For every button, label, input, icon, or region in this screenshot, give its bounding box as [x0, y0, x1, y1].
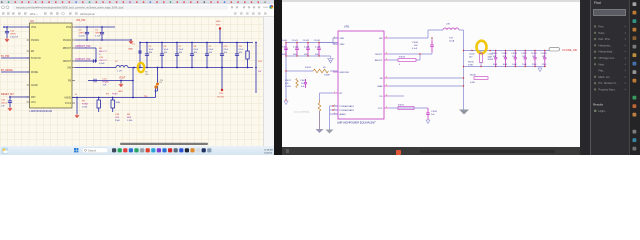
svg-text:C9: C9 [209, 46, 213, 48]
editor right strip [263, 17, 275, 146]
svg-text:Pins: Pins [599, 25, 605, 29]
svg-text:RESET_MV: RESET_MV [1, 93, 14, 96]
svg-text:5/4/2023: 5/4/2023 [264, 152, 273, 154]
capacitor C14 [88, 79, 109, 87]
svg-text:C15: C15 [1, 100, 6, 102]
svg-text:C1029: C1029 [511, 53, 518, 55]
svg-text:C7: C7 [179, 46, 183, 48]
right toolbar strip background [629, 0, 640, 155]
net 5V_PW [1, 55, 30, 58]
svg-text:22uF: 22uF [239, 49, 244, 51]
wire RT [320, 93, 334, 100]
wire VOUT bottom rail [128, 67, 253, 69]
svg-text:C4: C4 [95, 30, 99, 32]
svg-text:Highl...: Highl... [599, 109, 607, 113]
left browser window background [0, 0, 274, 147]
svg-text:0.022uF: 0.022uF [10, 37, 19, 39]
svg-text:C10: C10 [224, 46, 229, 48]
svg-text:100k: 100k [116, 102, 122, 104]
wire VOUT sense [93, 68, 134, 98]
svg-text:VCORE_NB: VCORE_NB [562, 48, 577, 52]
capacitor C8 [190, 42, 199, 69]
svg-text:EN: EN [31, 51, 35, 53]
wire VCC [389, 107, 428, 109]
svg-text:C11: C11 [239, 46, 244, 48]
svg-text:50V: 50V [304, 54, 308, 56]
svg-text:24.9k: 24.9k [82, 107, 88, 109]
svg-text:easyeda.com/editor#id=schemati: easyeda.com/editor#id=schematic|power|lm… [16, 7, 124, 10]
capacitor C1042 [303, 40, 310, 57]
svg-text:PW: PW [258, 71, 261, 73]
editor toolbar icons [2, 12, 267, 16]
resistor R1017b zigzag [296, 79, 298, 88]
svg-text:Parts: Parts [599, 31, 606, 35]
svg-text:C13: C13 [99, 57, 104, 59]
svg-text:POWER PAD2: POWER PAD2 [340, 109, 355, 112]
svg-text:U7B: U7B [344, 26, 349, 29]
wire CBOOT [389, 52, 432, 54]
resistor R1016 [468, 51, 482, 67]
svg-text:RBOOT: RBOOT [99, 51, 107, 53]
orcad dark edge [580, 0, 590, 155]
svg-text:GND: GND [118, 91, 123, 93]
ground output caps [538, 67, 542, 72]
svg-text:R1074: R1074 [399, 57, 406, 59]
capacitor C1033 [501, 50, 508, 67]
svg-text:10uF: 10uF [503, 64, 508, 66]
svg-text:Wire: Wire [30, 12, 36, 16]
label U3 [30, 19, 34, 23]
wire L39 out [459, 30, 464, 110]
svg-text:1uF: 1uF [301, 86, 305, 88]
svg-text:VCC2: VCC2 [65, 103, 72, 105]
svg-text:EN/SYNC: EN/SYNC [340, 72, 350, 74]
wire PG [389, 95, 404, 97]
power arrow input [327, 56, 334, 63]
svg-text:VIN2: VIN2 [340, 44, 346, 46]
svg-text:10:48 AM: 10:48 AM [264, 148, 273, 151]
svg-text:7uH: 7uH [449, 38, 453, 40]
svg-text:RBOOT: RBOOT [63, 48, 72, 50]
address bar field [2, 5, 229, 9]
label U7B [344, 26, 349, 29]
svg-text:4: 4 [625, 38, 627, 41]
svg-text:1/16W: 1/16W [324, 75, 330, 77]
wire out bottom rail [463, 66, 546, 67]
wire EN [285, 70, 338, 71]
svg-text:VCC: VCC [378, 108, 383, 110]
test point TH1 [216, 21, 221, 43]
find panel title [594, 1, 601, 5]
svg-text:CBOOT: CBOOT [63, 61, 72, 63]
svg-text:16V: 16V [209, 52, 213, 54]
svg-text:L39: L39 [446, 24, 450, 26]
svg-text:R1072: R1072 [398, 105, 405, 107]
svg-text:TP6: TP6 [159, 82, 164, 84]
capacitor C1036 [412, 37, 434, 52]
svg-text:CBOOT: CBOOT [375, 54, 383, 56]
svg-text:1uF: 1uF [103, 85, 107, 87]
capacitor C1045 [314, 40, 321, 57]
svg-text:4.7uF: 4.7uF [95, 36, 101, 38]
capacitor C13 [93, 48, 107, 65]
svg-text:4: 4 [625, 51, 627, 54]
svg-text:16V: 16V [239, 52, 243, 54]
ground below C12 [5, 38, 9, 42]
capacitor C5 [145, 42, 154, 69]
svg-text:4: 4 [625, 82, 627, 85]
IC pin names left [27, 27, 42, 104]
svg-text:47K: 47K [285, 83, 289, 85]
svg-text:GND: GND [216, 21, 221, 23]
svg-text:4: 4 [625, 70, 627, 73]
svg-text:CHP2: CHP2 [79, 33, 86, 35]
svg-text:22uF: 22uF [209, 49, 214, 51]
svg-text:VIN2: VIN2 [66, 27, 72, 29]
canvas h scrollbar [120, 143, 208, 145]
inductor L2 [115, 61, 128, 73]
IC pin names right [63, 27, 75, 105]
svg-text:RBOOT: RBOOT [375, 60, 383, 62]
svg-text:VOUT5: VOUT5 [217, 96, 225, 98]
svg-text:LMR HIGHPOWER EQUIVALENT: LMR HIGHPOWER EQUIVALENT [337, 121, 376, 125]
svg-text:4.99K: 4.99K [468, 64, 474, 66]
label C18 [115, 114, 121, 122]
orcad bottom scrollbar strip [282, 147, 580, 155]
wire input top rail [286, 42, 338, 44]
svg-text:22pF: 22pF [115, 120, 121, 122]
resistor R1017b labels [285, 80, 292, 88]
svg-text:100: 100 [145, 74, 149, 76]
start button [74, 148, 78, 152]
svg-text:C1007: C1007 [300, 80, 307, 82]
svg-text:RST: RST [31, 97, 36, 99]
label LMR equivalent [337, 121, 376, 125]
test point TP6 [144, 82, 164, 98]
svg-text:VIN1: VIN1 [31, 27, 37, 29]
ground AGND branch [75, 94, 79, 118]
wire VOUT top rail [140, 42, 253, 44]
svg-text:R5: R5 [82, 101, 86, 103]
svg-text:22uF: 22uF [179, 49, 184, 51]
svg-text:C1033: C1033 [501, 53, 508, 55]
toolbar divider [0, 15, 274, 18]
tab favicons [1, 1, 266, 3]
svg-text:100%: 100% [263, 7, 268, 9]
search pill [82, 148, 108, 153]
capacitor C3 [79, 27, 90, 40]
svg-text:C12: C12 [10, 31, 15, 33]
wire input left rail [284, 43, 288, 105]
wire pgnd rail [75, 39, 132, 41]
svg-text:AGND: AGND [64, 96, 71, 99]
svg-text:R1017: R1017 [285, 80, 292, 82]
svg-text:1 uH: 1 uH [117, 71, 122, 73]
svg-text:PG: PG [379, 96, 382, 98]
capacitor C4 [95, 27, 104, 40]
svg-text:R2: R2 [99, 48, 103, 50]
svg-text:8: 8 [386, 94, 387, 96]
svg-text:R1016: R1016 [468, 62, 474, 64]
results section [593, 103, 607, 114]
svg-text:UCBOOT_PW: UCBOOT_PW [75, 58, 91, 61]
svg-text:VCC: VCC [31, 102, 36, 104]
svg-text:22uF: 22uF [542, 64, 547, 66]
status bar mark [286, 149, 289, 153]
resistor R1017 [318, 100, 321, 129]
scrollbar darker band [420, 150, 555, 153]
address bar right icons [231, 5, 273, 9]
svg-text:RFF: RFF [127, 117, 132, 119]
svg-text:nd: nd [132, 44, 135, 46]
svg-text:CHP1: CHP1 [10, 34, 17, 36]
svg-text:50V: 50V [315, 54, 319, 56]
svg-text:4: 4 [625, 63, 627, 66]
svg-text:C1036: C1036 [412, 42, 419, 44]
svg-text:RT: RT [340, 93, 344, 95]
svg-text:R1013: R1013 [305, 67, 312, 69]
capacitor C1040 [281, 40, 288, 57]
svg-text:C1025: C1025 [469, 54, 475, 56]
wire input bottom rail [286, 55, 331, 57]
svg-text:0.1uF: 0.1uF [304, 47, 310, 49]
taskbar clock [264, 148, 273, 154]
ground VIN caps [128, 40, 133, 51]
orcad top edge [282, 0, 580, 2]
svg-text:Hierarchic...: Hierarchic... [599, 43, 613, 47]
svg-text:CFF: CFF [115, 117, 120, 119]
svg-text:8: 8 [386, 106, 387, 108]
net BT_MODE [1, 69, 30, 72]
svg-text:LMR33630ADDAR: LMR33630ADDAR [30, 109, 53, 113]
svg-text:C1035: C1035 [431, 111, 438, 113]
wire out top rail [463, 50, 549, 51]
black window divider [274, 0, 282, 155]
resistor R5 [82, 98, 100, 113]
svg-text:2: 2 [334, 91, 335, 93]
svg-text:POWER PAD1: POWER PAD1 [340, 105, 355, 108]
svg-text:8: 8 [386, 52, 387, 54]
svg-text:50V: 50V [469, 56, 473, 58]
resistor R1074 [398, 57, 416, 66]
svg-text:TP8: TP8 [219, 93, 224, 95]
IC U3 body [30, 23, 73, 108]
svg-text:Nets: Nets [599, 62, 605, 66]
taskbar [0, 146, 274, 155]
wire SW [75, 67, 116, 69]
weather icon [2, 148, 9, 155]
ground VOUT sense [118, 80, 123, 93]
svg-text:8: 8 [386, 58, 387, 60]
label R8 [127, 114, 133, 122]
svg-text:Flat...: Flat... [599, 69, 606, 73]
svg-text:VIN1: VIN1 [340, 38, 346, 40]
svg-text:Search: Search [88, 148, 97, 152]
svg-text:5V/SYNC: 5V/SYNC [31, 58, 41, 60]
svg-text:Pin: Number N...: Pin: Number N... [599, 81, 618, 85]
test point TP6 [155, 67, 165, 91]
orange playhead marker [396, 150, 401, 155]
svg-text:4: 4 [625, 57, 627, 60]
svg-text:1uF: 1uF [1, 106, 5, 108]
svg-text:16V: 16V [179, 52, 183, 54]
svg-text:16V: 16V [149, 52, 153, 54]
find panel background [590, 0, 630, 155]
svg-text:C18: C18 [115, 114, 120, 116]
svg-text:Find: Find [594, 1, 601, 5]
svg-text:10uF: 10uF [512, 64, 517, 66]
svg-text:4: 4 [625, 44, 627, 47]
net VIN_PW [76, 19, 86, 22]
svg-text:C3: C3 [79, 30, 83, 32]
resistor R1018 on FB [470, 75, 488, 85]
svg-text:45: 45 [75, 94, 77, 96]
svg-text:Mark: xxx: Mark: xxx [599, 75, 611, 79]
off-page port [549, 48, 560, 51]
wire VIN right rail [75, 26, 115, 28]
svg-text:C1045: C1045 [314, 40, 321, 42]
svg-text:22uF: 22uF [532, 64, 537, 66]
svg-text:CHP3: CHP3 [95, 33, 102, 35]
find tree rows [594, 25, 627, 92]
svg-text:10uF: 10uF [149, 49, 154, 51]
capacitor C1035 [426, 108, 438, 120]
svg-text:R7: R7 [106, 94, 110, 96]
svg-text:C6: C6 [164, 46, 168, 48]
svg-text:Off Page Con...: Off Page Con... [599, 56, 617, 60]
svg-text:1/16W: 1/16W [285, 86, 291, 88]
capacitor C15 [1, 97, 12, 108]
capacitor C1028 [541, 50, 548, 67]
svg-text:RTBB: RTBB [82, 104, 88, 106]
svg-text:C1027: C1027 [521, 53, 528, 55]
svg-text:Property Nam...: Property Nam... [599, 88, 617, 92]
svg-text:50V: 50V [293, 54, 297, 56]
svg-text:C1028: C1028 [541, 53, 548, 55]
svg-text:0.1uF: 0.1uF [315, 47, 321, 49]
svg-text:10uF: 10uF [522, 64, 527, 66]
taskbar app icons [112, 148, 211, 152]
svg-text:16V: 16V [194, 52, 198, 54]
svg-text:BT_MODE: BT_MODE [1, 69, 13, 72]
find search box [593, 9, 626, 17]
svg-text:TH1: TH1 [216, 24, 221, 26]
resistor R1072 [398, 105, 414, 110]
wire FB [389, 77, 464, 78]
vertical vout branch [139, 42, 141, 68]
capacitor C1029 [511, 50, 518, 67]
svg-text:Results: Results [593, 103, 604, 107]
svg-text:1/16W: 1/16W [488, 59, 494, 61]
net VOUT [119, 78, 126, 80]
wire FB lower [72, 97, 156, 99]
svg-text:10uF: 10uF [164, 49, 169, 51]
svg-text:R1018: R1018 [470, 75, 476, 77]
svg-text:CHC1: CHC1 [1, 103, 8, 105]
test point TP8 [217, 67, 225, 99]
ground C1035 [426, 120, 430, 124]
capacitor C10 [220, 42, 229, 69]
svg-text:11.5A: 11.5A [449, 40, 455, 43]
capacitor C11 [235, 42, 244, 69]
schematic canvas grid [0, 17, 263, 146]
svg-text:Hierarchical...: Hierarchical... [599, 50, 615, 54]
svg-text:PGND2: PGND2 [63, 40, 72, 42]
svg-text:C1032: C1032 [531, 53, 538, 55]
svg-text:(Cam C1/2/Tabs): (Cam C1/2/Tabs) [294, 111, 309, 113]
svg-text:1.00k: 1.00k [127, 120, 133, 122]
svg-text:U3: U3 [30, 19, 34, 23]
resistor R1013 zigzag [305, 67, 330, 77]
svg-text:AGND: AGND [31, 84, 38, 87]
resistor R7 [106, 94, 121, 113]
capacitor C6 [160, 42, 169, 69]
svg-text:BIAS: BIAS [378, 85, 384, 88]
svg-text:C8: C8 [194, 46, 198, 48]
svg-text:4: 4 [625, 32, 627, 35]
svg-text:1uF: 1uF [431, 114, 435, 116]
capacitor C1041 [292, 40, 299, 57]
svg-text:GND: GND [128, 49, 133, 51]
svg-text:0R: 0R [323, 67, 326, 69]
wire VIN pins [318, 38, 338, 44]
svg-text:0.022u: 0.022u [79, 36, 86, 38]
svg-text:8: 8 [386, 84, 387, 86]
capacitor C1031 [492, 50, 499, 67]
svg-text:Part: Pins: Part: Pins [599, 37, 611, 41]
svg-text:8: 8 [386, 76, 387, 78]
capacitor C9 [205, 42, 214, 69]
highlighted component cursor ring [469, 41, 493, 61]
svg-text:0: 0 [399, 64, 401, 66]
wire SW to L39 [389, 30, 443, 38]
svg-text:5V_PW: 5V_PW [1, 55, 10, 58]
ground RT gray [316, 129, 324, 133]
inductor L39 [443, 24, 459, 43]
capacitor C1032 [531, 50, 538, 67]
svg-text:C5: C5 [149, 46, 153, 48]
svg-text:16V: 16V [224, 52, 228, 54]
wire VIN left [3, 26, 29, 28]
svg-text:CBOOT: CBOOT [99, 60, 107, 62]
resistor R9 [246, 42, 249, 69]
ground power pads [326, 105, 339, 133]
svg-text:4: 4 [625, 26, 627, 29]
capacitor C12 [5, 27, 19, 39]
svg-text:10uF: 10uF [493, 64, 498, 66]
svg-text:FB: FB [380, 78, 383, 80]
net VCORE_NB [562, 48, 577, 52]
svg-text:UPBOOT_PW: UPBOOT_PW [75, 45, 91, 48]
svg-text:PGND1: PGND1 [31, 40, 40, 42]
wire BIAS [389, 85, 464, 86]
capacitor C7 [175, 42, 184, 69]
svg-text:RTBT: RTBT [112, 94, 118, 96]
svg-text:0.1uF: 0.1uF [99, 63, 105, 65]
gray footnote [294, 111, 309, 113]
svg-text:4: 4 [625, 76, 627, 79]
IC U7B body [338, 31, 384, 119]
net UPBOOT_PW [75, 45, 96, 61]
svg-text:4.7uF: 4.7uF [293, 47, 299, 49]
svg-text:AGND: AGND [340, 113, 347, 116]
svg-text:R8: R8 [127, 114, 131, 116]
svg-text:Add Explorer: Add Explorer [80, 12, 95, 16]
svg-text:MODE: MODE [31, 72, 38, 74]
label LMR33630ADDAR [30, 109, 53, 113]
orcad white canvas [282, 0, 580, 147]
svg-text:C1031: C1031 [492, 53, 499, 55]
